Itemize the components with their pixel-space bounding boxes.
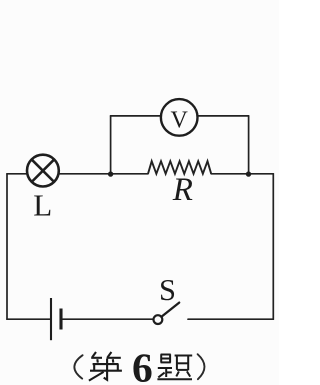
voltmeter V (meter circle): [161, 99, 198, 136]
wire: switch to bottom-right: [188, 318, 273, 320]
wire: lamp to node A: [59, 173, 110, 175]
wire: voltmeter branch right horizontal: [198, 115, 249, 117]
wire: top-left to lamp: [7, 173, 26, 175]
wire: node B to top-right corner: [249, 173, 274, 175]
wire: voltmeter branch left vertical: [110, 116, 112, 174]
svg-text:R: R: [172, 172, 193, 208]
wire: battery to switch: [63, 318, 154, 320]
switch S: pivot circle: [154, 315, 163, 324]
wire: voltmeter branch left horizontal: [111, 115, 161, 117]
switch S: lever arm: [162, 303, 179, 317]
svg-text:L: L: [33, 187, 52, 222]
battery cell: long plate (+): [50, 298, 52, 340]
wire: resistor to node B: [211, 173, 248, 175]
lamp L (circle with X): [27, 155, 59, 187]
wire: left vertical side: [6, 174, 8, 319]
svg-text:S: S: [159, 273, 176, 307]
caption: character 第: [89, 352, 122, 381]
wire: bottom-left to battery: [7, 318, 50, 320]
node B (junction dot): [246, 171, 251, 176]
svg-text:V: V: [171, 107, 189, 133]
svg-text:6: 6: [132, 345, 153, 385]
caption: character 题: [157, 354, 192, 379]
caption: right full-width paren: [198, 354, 205, 379]
caption: left full-width paren: [74, 355, 82, 378]
battery cell: short thick plate (-): [59, 309, 62, 330]
resistor R (zigzag): [148, 161, 211, 174]
node A (junction dot): [108, 171, 113, 176]
wire: right vertical side: [272, 174, 274, 319]
wire: node A to resistor: [111, 173, 148, 175]
wire: voltmeter branch right vertical: [248, 116, 250, 174]
